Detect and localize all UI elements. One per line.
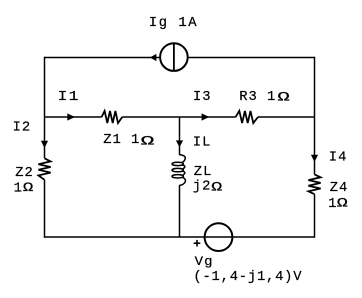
svg-text:Ω: Ω [141,135,157,149]
voltage source Vg plus sign [194,240,201,247]
svg-text:ZL: ZL [194,165,213,180]
svg-text:I3: I3 [193,90,212,105]
wire middle branch upper [179,117,181,155]
wire right vertical lower [314,194,316,238]
wire left vertical upper [44,57,46,159]
resistor Z1 [102,111,123,123]
wire left vertical lower [44,180,46,238]
wire top-right segment [187,57,314,59]
arrow I2 (points down) [41,141,48,148]
voltage source Vg circle [205,223,233,251]
svg-text:I4: I4 [329,151,348,166]
inductor ZL coil entry [180,155,186,163]
svg-text:Z2: Z2 [15,166,34,181]
svg-text:I2: I2 [13,120,32,135]
svg-text:R3 1: R3 1 [239,90,276,105]
arrow IL (points down) [176,140,183,147]
svg-text:Ω: Ω [23,181,35,195]
wire top-left segment [45,57,161,59]
wire bottom [45,236,315,238]
inductor ZL loop 2 [172,168,183,171]
svg-text:Ig 1A: Ig 1A [149,16,198,31]
svg-text:Ω: Ω [211,181,224,195]
inductor ZL connector arc 2 [183,171,185,175]
svg-text:IL: IL [193,135,212,150]
wire right vertical upper [314,57,316,175]
wire middle branch lower [179,185,181,237]
inductor ZL connector arc 1 [183,165,185,169]
svg-text:(-1,4-j1,4)V: (-1,4-j1,4)V [193,269,302,285]
wire middle horizontal left [45,116,102,118]
current source Ig bar [173,44,175,71]
svg-text:1: 1 [14,182,23,197]
svg-text:j2: j2 [193,179,212,195]
arrow I1 (points right) [67,113,75,120]
svg-text:Vg: Vg [195,254,214,269]
svg-text:Z4: Z4 [330,181,349,196]
arrow I3 (points right) [202,113,210,120]
resistor R3 [236,111,258,123]
svg-text:Ω: Ω [277,90,291,104]
wire middle horizontal right [258,116,315,118]
arrow I4 (points down) [311,155,318,162]
inductor ZL coil exit [180,177,186,185]
current arrow Ig (points left) [150,54,157,61]
svg-text:I1: I1 [58,90,80,105]
svg-text:Ω: Ω [337,196,350,210]
resistor Z2 [38,158,50,180]
current source Ig circle [160,43,188,71]
svg-text:Z1 1: Z1 1 [103,133,140,148]
inductor ZL loop 1 [172,162,183,165]
inductor ZL loop 3 [172,175,183,178]
wire middle horizontal center [122,116,235,118]
resistor Z4 [308,174,320,194]
